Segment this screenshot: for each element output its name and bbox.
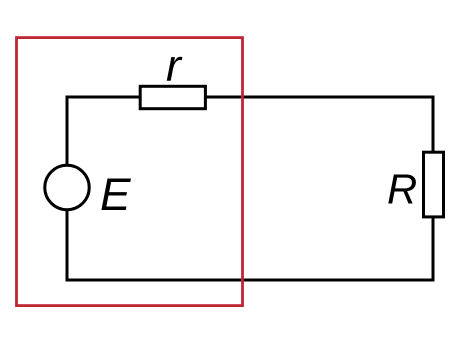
wire right (R branch) [432, 96, 435, 282]
svg-text:E: E [100, 169, 131, 220]
annotation box (red highlight around real source E with r) [17, 38, 243, 306]
svg-text:r: r [166, 41, 183, 91]
resistor r (internal resistance, horizontal box) [140, 86, 205, 108]
resistor R (load, vertical box) [424, 152, 444, 217]
wire top (node between E+ and r, r to R top) [66, 96, 435, 99]
wire bottom (return net) [66, 279, 435, 282]
svg-text:R: R [387, 165, 417, 212]
voltage source E (circle symbol) [45, 165, 89, 209]
wire left (E branch) [66, 96, 69, 282]
